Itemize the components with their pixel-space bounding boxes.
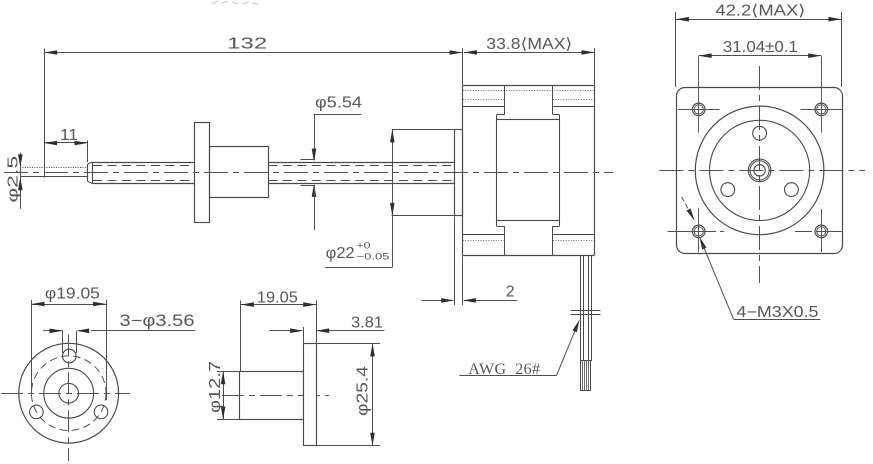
svg-text:φ22: φ22 [326,245,355,262]
bolt circle dashed [31,356,106,431]
main view centerline [4,172,613,174]
dimension 132 overall [462,48,464,85]
motor face outer circle [695,106,824,235]
svg-text:132: 132 [227,35,267,52]
rotor hole lower left [721,183,735,197]
svg-text:+0: +0 [357,241,371,252]
corner screw hole top right [815,103,828,116]
nut outer circle [19,343,119,443]
nut front view horizontal centerline [1,393,130,395]
dimension phi19.05 [31,300,33,394]
dimension 33.8 MAX [594,48,596,85]
svg-text:φ19.05: φ19.05 [45,286,100,303]
dimension 3.81 flange [303,327,305,343]
corner screw hole bottom right [815,225,828,238]
wire stripped end [581,361,591,391]
svg-text:2: 2 [506,283,515,300]
nut front view vertical centerline [68,334,70,461]
lead screw outline [92,162,194,164]
rotor hole top [753,126,767,140]
nut side view centerline [222,395,329,397]
corner screw hole bottom left [692,225,705,238]
stator winding block [497,120,560,221]
nut center hole [59,383,79,403]
threaded tip shaft [20,167,88,169]
rotor hole lower right [785,183,799,197]
motor body outline [463,85,595,87]
wire break marks [571,310,601,312]
svg-text:−0.05: −0.05 [357,252,390,263]
svg-text:33.8⟨MAX⟩: 33.8⟨MAX⟩ [486,36,572,53]
svg-text:31.04±0.1: 31.04±0.1 [723,39,798,56]
dimension phi22 pilot boss [392,129,455,131]
front view flange square [677,88,843,254]
mount hole lower left [30,405,44,419]
faint watermark fragment [212,1,258,4]
motor face inner ring [710,120,810,220]
mount hole lower right [94,405,108,419]
svg-text:φ5.54: φ5.54 [315,95,362,112]
svg-text:φ12.7: φ12.7 [207,361,224,413]
svg-text:42.2⟨MAX⟩: 42.2⟨MAX⟩ [715,3,805,20]
svg-text:3.81: 3.81 [351,315,383,332]
dimension phi25.4 [316,343,380,345]
dimension 11 [44,49,46,178]
svg-text:11: 11 [60,127,78,144]
svg-text:φ25.4: φ25.4 [354,366,371,416]
front view vertical centerline [759,66,761,283]
mount hole top [63,349,77,363]
nut flange disc [195,123,210,223]
dimension 42.2 MAX [675,12,677,87]
nut side flange rect [304,344,317,446]
pilot boss plate [455,130,463,216]
front view horizontal centerline [659,170,865,172]
lead screw thread root dashed [93,165,195,167]
dimension 2 plate thickness [454,217,456,306]
motor corner tangent dotted line [463,90,595,92]
nut body circle [44,368,94,418]
leader 4-M3X0.5 [682,197,691,214]
stator neck [504,85,506,114]
svg-text:3−φ3.56: 3−φ3.56 [120,312,195,330]
nut cylinder body [210,147,269,198]
dimension phi12.7 [217,371,239,373]
dimension 31.04 [699,55,822,57]
dimension phi2.5 tip [20,153,22,209]
dimension 3-phi3.56 [62,331,64,353]
shaft boss rings [748,159,771,182]
lead screw chamfered end [87,164,89,181]
dimension 19.05 [240,301,242,372]
svg-text:19.05: 19.05 [257,290,298,307]
svg-text:4−M3X0.5: 4−M3X0.5 [737,304,819,321]
nut side body rect [240,372,304,420]
motor lead wires [580,256,582,361]
corner screw hole top left [692,103,705,116]
motor end cap lines [463,99,505,101]
svg-text:φ2.5: φ2.5 [5,156,22,203]
